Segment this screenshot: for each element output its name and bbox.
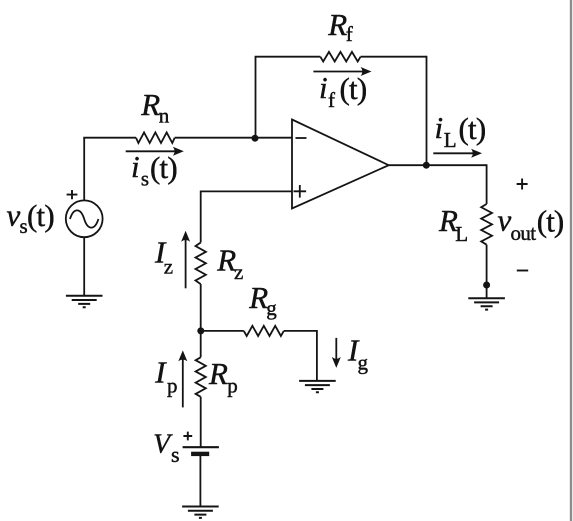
svg-text:p: p — [167, 374, 178, 398]
label if(t) — [319, 70, 366, 112]
svg-text:R: R — [248, 280, 268, 315]
wire feedback right vertical — [426, 56, 428, 165]
wire output — [389, 164, 487, 166]
svg-text:(t): (t) — [27, 198, 54, 233]
wire vs bottom lead — [83, 237, 85, 295]
svg-text:R: R — [327, 7, 347, 42]
node A inverting input junction — [252, 135, 259, 142]
op-amp U1 — [292, 120, 389, 209]
svg-text:i: i — [319, 70, 328, 105]
svg-text:I: I — [154, 355, 167, 390]
label iL(t) — [435, 110, 486, 152]
battery Vs — [183, 447, 219, 456]
label is(t) — [131, 149, 177, 191]
current arrow iL(t) — [433, 149, 482, 158]
ground output RL — [468, 298, 505, 309]
svg-text:L: L — [444, 128, 457, 152]
svg-text:n: n — [159, 104, 170, 128]
label vs(t) — [7, 198, 54, 239]
svg-text:R: R — [140, 87, 160, 122]
svg-text:L: L — [455, 222, 468, 246]
resistor Rp — [196, 357, 206, 397]
svg-text:z: z — [234, 260, 243, 284]
current arrow Ip — [178, 350, 187, 407]
label Ig — [347, 333, 369, 375]
svg-text:v: v — [498, 202, 512, 237]
ground battery — [182, 507, 219, 518]
plus sign vs — [67, 190, 78, 199]
minus sign vout — [517, 270, 528, 272]
label Rp — [208, 356, 238, 398]
current arrow Iz — [181, 231, 190, 288]
label Iz — [154, 234, 173, 278]
wire vs top lead — [83, 138, 85, 201]
wire Rp to battery — [200, 397, 202, 447]
node RL ground junction — [483, 282, 490, 289]
wire Rn left — [83, 137, 136, 139]
wire feedback left vertical — [255, 57, 257, 139]
current arrow is(t) — [126, 147, 184, 156]
label Rf — [327, 7, 353, 46]
svg-text:v: v — [7, 198, 21, 233]
label Rn — [140, 87, 170, 128]
wire node to Rg — [201, 330, 244, 332]
svg-text:(t): (t) — [459, 111, 486, 146]
ground Rg — [299, 381, 336, 392]
svg-text:s: s — [141, 167, 149, 191]
wire node to Rp — [200, 331, 202, 357]
wire Rz to node — [200, 284, 202, 331]
svg-text:g: g — [266, 296, 277, 320]
label Vs — [153, 428, 179, 468]
svg-text:z: z — [164, 254, 173, 278]
current arrow Ig — [332, 338, 341, 368]
node output junction — [423, 162, 430, 169]
wire Rn to op-amp — [175, 137, 292, 139]
svg-text:i: i — [435, 110, 444, 145]
resistor Rz — [196, 243, 206, 285]
label Rg — [248, 280, 277, 320]
svg-text:(t): (t) — [340, 71, 367, 106]
svg-text:(t): (t) — [150, 150, 177, 185]
svg-text:f: f — [346, 22, 353, 46]
node B Rz Rg Rp junction — [197, 327, 204, 334]
plus sign Vs battery — [183, 432, 192, 441]
svg-text:f: f — [328, 88, 335, 112]
resistor Rg — [244, 326, 284, 336]
label Rz — [216, 243, 243, 284]
svg-text:s: s — [171, 442, 180, 467]
svg-text:out: out — [511, 221, 537, 245]
wire noninverting input — [201, 191, 292, 242]
wire battery to ground — [199, 455, 201, 506]
wire Rg right — [284, 331, 317, 381]
svg-text:p: p — [227, 374, 238, 398]
label vout(t) — [498, 202, 564, 245]
label Ip — [154, 355, 177, 398]
svg-text:(t): (t) — [537, 203, 564, 238]
resistor Rn — [136, 132, 175, 143]
ground vs — [66, 296, 103, 307]
plus sign vout — [517, 179, 528, 190]
resistor RL — [481, 204, 492, 245]
wire feedback top right — [361, 56, 427, 58]
wire RL bottom lead — [486, 245, 488, 298]
svg-text:g: g — [358, 351, 369, 375]
svg-text:i: i — [131, 149, 140, 184]
resistor Rf — [320, 52, 360, 62]
current arrow if(t) — [313, 67, 371, 76]
wire feedback top left — [255, 56, 321, 58]
wire RL top lead — [486, 164, 488, 204]
label RL — [438, 203, 468, 246]
voltage source vs(t) — [66, 200, 103, 237]
svg-text:R: R — [208, 356, 228, 391]
